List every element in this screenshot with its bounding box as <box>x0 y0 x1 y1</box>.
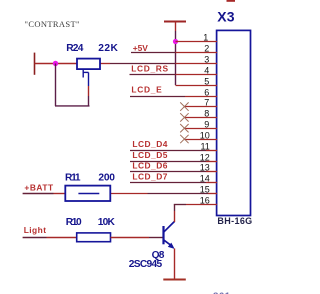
svg-text:16: 16 <box>200 195 210 205</box>
svg-text:13: 13 <box>200 162 210 172</box>
pin 4 number <box>204 65 209 75</box>
pin 13 number <box>200 162 210 172</box>
pin 14 wire (dark under label) <box>130 182 206 184</box>
net label +BATT <box>24 182 54 192</box>
net label LCD_D5 <box>132 150 167 160</box>
svg-text:9: 9 <box>204 119 209 129</box>
net label LCD_D6 <box>132 160 167 170</box>
resistor R10 body <box>77 233 111 242</box>
pin 9 wire <box>184 128 217 130</box>
pin 2 number <box>204 43 209 53</box>
wire R10 to Q8 base <box>111 237 150 239</box>
pin 3 wire (from R24 to connector) <box>100 63 110 65</box>
svg-text:LCD_D5: LCD_D5 <box>132 150 167 160</box>
wire node to pin 5 (vertical) <box>175 31 177 85</box>
transistor Q8 value 2SC945 <box>129 259 163 270</box>
wire Q8 collector up (red) <box>174 211 176 222</box>
ground bar (power port, top) <box>164 21 186 23</box>
pin 4 wire (dark under label) <box>130 74 176 76</box>
wire Light to R10 <box>47 237 77 239</box>
svg-text:2SC945: 2SC945 <box>129 259 163 270</box>
pin 2 wire (dark under label) <box>131 52 176 54</box>
wire loop bottom <box>55 105 90 107</box>
transistor Q8 designator <box>152 250 165 261</box>
net label LCD_E <box>131 84 162 94</box>
svg-text:R11: R11 <box>65 173 81 184</box>
wire +BATT to R11 (dark under label) <box>23 193 54 195</box>
pin 4 wire <box>176 74 218 76</box>
pin 15 wire (to connector) <box>208 193 217 195</box>
svg-text:LCD_D6: LCD_D6 <box>132 160 167 170</box>
transistor Q8 (NPN 2SC945) <box>164 222 175 249</box>
net label LCD_D7 <box>132 171 167 181</box>
junction dot at contrast node <box>53 61 58 66</box>
svg-text:12: 12 <box>200 152 210 162</box>
pin 12 wire <box>206 161 217 163</box>
resistor R24 value 22K <box>98 43 118 54</box>
pin 14 number <box>200 173 210 183</box>
pin 16 number <box>200 195 210 205</box>
connector value BH-16G <box>217 216 252 226</box>
no-connect X pin 7 <box>180 102 188 110</box>
net label Light <box>24 225 47 235</box>
svg-text:2: 2 <box>204 43 209 53</box>
pin 7 wire <box>184 106 217 108</box>
resistor R11 body <box>65 186 110 201</box>
svg-text:14: 14 <box>200 173 210 183</box>
pin 6 wire (dark under label) <box>130 96 185 98</box>
svg-text:+BATT: +BATT <box>24 182 54 192</box>
wire ground bar to node <box>175 22 177 32</box>
pin 16 wire (to connector) <box>186 204 217 206</box>
wire wiper down (dark segment) <box>88 96 90 106</box>
resistor R24 body (trimmer) <box>77 59 100 70</box>
pin 11 wire <box>206 150 217 152</box>
net label LCD_RS <box>131 63 168 73</box>
wire loop left (up to junction) <box>55 64 57 106</box>
wire junction to R24 <box>56 63 78 65</box>
no-connect X pin 9 <box>180 124 188 132</box>
pin 11 number <box>200 141 209 151</box>
net label LCD_D4 <box>132 139 167 149</box>
svg-text:BH-16G: BH-16G <box>217 216 252 226</box>
pin 15 wire (from R11) <box>110 193 147 195</box>
wire (clipped red stub at top edge) <box>227 0 236 2</box>
pin 8 number <box>204 108 209 118</box>
svg-text:8: 8 <box>204 108 209 118</box>
R11 inner bar <box>78 193 99 195</box>
pin 10 number <box>200 130 210 140</box>
svg-text:Light: Light <box>24 225 47 235</box>
pin 14 wire <box>206 182 217 184</box>
resistor R11 value 200 <box>98 173 115 184</box>
pin 12 number <box>200 152 210 162</box>
clipped text at bottom edge <box>213 291 231 294</box>
pin 3 wire (dark mid segment) <box>110 63 176 65</box>
junction dot on pin 1 <box>173 39 178 44</box>
pin 7 number <box>204 97 209 107</box>
note "CONTRAST" <box>25 19 80 29</box>
resistor R10 value 10K <box>98 217 116 228</box>
pin 5 wire <box>176 85 218 87</box>
connector X3 designator <box>217 9 235 25</box>
pin 10 wire <box>184 139 217 141</box>
terminal stub (contrast input) <box>34 53 36 75</box>
no-connect X pin 8 <box>180 113 188 121</box>
svg-text:10K: 10K <box>98 217 116 228</box>
svg-text:LCD_RS: LCD_RS <box>131 63 168 73</box>
svg-text:4: 4 <box>204 65 209 75</box>
pin 13 wire <box>206 171 217 173</box>
svg-text:10: 10 <box>200 130 210 140</box>
wire R10 to Q8 base (dark segment) <box>149 237 163 239</box>
wire Q8 collector up <box>174 205 176 212</box>
R24 wiper tap <box>83 69 88 86</box>
pin 3 wire (to connector) <box>176 63 218 65</box>
pin 13 wire (dark under label) <box>130 171 206 173</box>
svg-text:R10: R10 <box>66 217 82 228</box>
pin 8 wire <box>184 117 217 119</box>
pin 9 number <box>204 119 209 129</box>
ground bar (below Q8) <box>163 279 186 281</box>
no-connect X pin 10 <box>180 135 188 143</box>
resistor R10 designator <box>66 217 82 228</box>
svg-text:3: 3 <box>204 54 209 64</box>
svg-text:11: 11 <box>200 141 209 151</box>
pin 12 wire (dark under label) <box>130 161 206 163</box>
svg-text:200: 200 <box>98 173 115 184</box>
svg-text:15: 15 <box>200 184 210 194</box>
wire +BATT to R11 <box>54 193 66 195</box>
wire wiper down (red segment) <box>88 86 90 96</box>
pin 3 number <box>204 54 209 64</box>
svg-text:LCD_D4: LCD_D4 <box>132 139 167 149</box>
svg-text:5: 5 <box>204 76 209 86</box>
svg-text:"CONTRAST": "CONTRAST" <box>25 19 80 29</box>
svg-text:1: 1 <box>203 32 208 42</box>
pin 1 number <box>203 32 208 42</box>
resistor R11 designator <box>65 173 81 184</box>
svg-text:R24: R24 <box>66 43 84 54</box>
pin 15 number <box>200 184 210 194</box>
pin 15 wire (dark mid segment) <box>148 193 209 195</box>
pin 6 wire <box>185 96 217 98</box>
pin 5 number <box>204 76 209 86</box>
wire Light to R10 (dark under label) <box>23 237 47 239</box>
net label +5V <box>133 43 149 53</box>
svg-text:22K: 22K <box>98 43 118 54</box>
pin 1 wire <box>176 41 218 43</box>
wire terminal to junction <box>35 63 56 65</box>
pin 11 wire (dark under label) <box>130 150 206 152</box>
svg-text:6: 6 <box>204 87 209 97</box>
svg-text:+5V: +5V <box>133 43 149 53</box>
pin 2 wire <box>176 52 218 54</box>
svg-text:LCD_D7: LCD_D7 <box>132 171 167 181</box>
connector X3 body <box>217 30 251 215</box>
resistor R24 designator <box>66 43 84 54</box>
wire Q8 emitter down <box>174 249 176 280</box>
svg-text:LCD_E: LCD_E <box>131 84 162 94</box>
svg-text:7: 7 <box>204 97 209 107</box>
pin 6 number <box>204 87 209 97</box>
pin 16 wire (horizontal from Q8 collector corner) <box>174 204 186 206</box>
svg-text:X3: X3 <box>217 9 235 25</box>
